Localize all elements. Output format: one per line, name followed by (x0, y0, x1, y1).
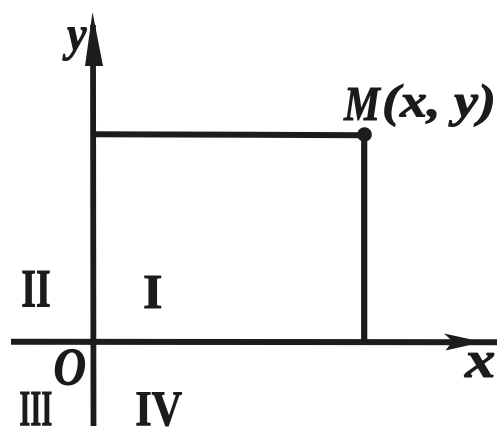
svg-text:II: II (21, 259, 50, 319)
svg-text:IV: IV (135, 381, 182, 436)
svg-text:x: x (464, 332, 496, 389)
svg-text:O: O (54, 338, 87, 396)
svg-text:y: y (62, 8, 86, 61)
svg-text:M: M (343, 78, 381, 131)
svg-text:I: I (143, 266, 163, 319)
svg-text:III: III (19, 380, 52, 436)
svg-text:(x, y): (x, y) (382, 76, 496, 127)
